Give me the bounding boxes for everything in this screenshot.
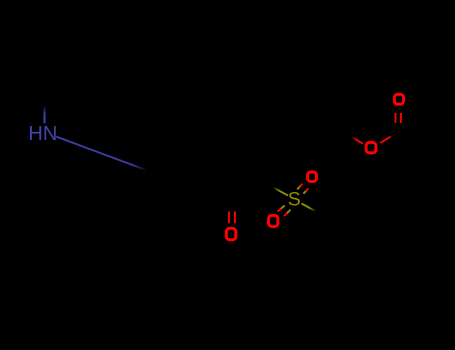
- S=O double bond (lower left): [278, 206, 291, 217]
- atom label O (sulfonyl oxygen lower): [269, 215, 278, 226]
- atom label HN (methylamino nitrogen): [28, 123, 57, 145]
- ketone C=O double bond: [229, 212, 235, 224]
- ester C=O double bond: [396, 113, 402, 123]
- atom label O (ketone oxygen): [226, 228, 236, 240]
- atom label O (sulfonyl oxygen upper): [308, 172, 317, 182]
- svg-text:S: S: [288, 188, 301, 210]
- bond N-C (amine to chain carbon): [56, 137, 146, 171]
- bond O-C(=O) (ester oxygen to carbonyl carbon): [380, 136, 391, 143]
- atom label O (ester carbonyl oxygen): [394, 94, 403, 104]
- S=O double bond (upper right): [297, 184, 308, 194]
- svg-text:HN: HN: [28, 123, 57, 145]
- bond S-C (sulfonyl to ring carbon): [302, 204, 316, 212]
- atom label S (sulfonyl sulfur): [288, 188, 301, 210]
- bond N-CH3 (methyl on amine): [44, 106, 46, 123]
- bond S-CH2 (sulfonyl to methylene): [274, 188, 289, 196]
- atom label O (ester oxygen): [366, 142, 376, 153]
- bond O-C (ester oxygen to ring carbon, fading): [352, 137, 364, 144]
